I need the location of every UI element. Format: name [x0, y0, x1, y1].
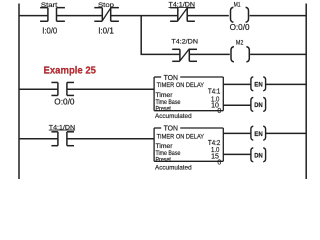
timer box T4:2 TON: [154, 128, 223, 161]
wire Start to Stop: [57, 15, 103, 17]
svg-text:Preset: Preset: [156, 157, 172, 164]
svg-text:TIMER ON DELAY: TIMER ON DELAY: [157, 82, 205, 89]
branch wire down from rung1 to rung2: [140, 16, 142, 55]
svg-text:DN: DN: [254, 102, 263, 109]
svg-text:TON: TON: [164, 73, 178, 82]
svg-text:Accumulated: Accumulated: [155, 113, 192, 120]
right power rail: [305, 4, 307, 180]
svg-text:Timer: Timer: [156, 92, 174, 99]
coil M1 (OTE): [231, 7, 249, 22]
contact O:0/0 (XIC normally open) rung3: [51, 82, 74, 95]
left power rail: [18, 4, 20, 180]
svg-text:EN: EN: [254, 81, 263, 88]
svg-text:Example 25: Example 25: [44, 64, 97, 76]
wire rung4: rail to T4:1/DN: [19, 138, 58, 140]
svg-text:O:0/0: O:0/0: [230, 22, 250, 32]
svg-text:TIMER ON DELAY: TIMER ON DELAY: [157, 134, 205, 141]
svg-text:I:0/1: I:0/1: [98, 26, 114, 36]
contact T4:1/DN (XIO normally closed) rung1: [170, 8, 195, 22]
wire timer1 to DN coil: [223, 104, 250, 106]
coil EN timer2: [251, 126, 266, 140]
wire timer1 to EN coil: [223, 83, 250, 85]
svg-text:DN: DN: [254, 152, 263, 159]
coil DN timer2: [251, 148, 266, 162]
contact Stop (XIO normally closed): [94, 8, 119, 22]
wire rung1: rail to Start: [19, 15, 48, 17]
svg-text:EN: EN: [254, 131, 263, 138]
wire T4:1/DN to timer box T4:2: [67, 138, 154, 140]
svg-text:T4:1: T4:1: [208, 89, 221, 96]
svg-text:TON: TON: [164, 124, 178, 133]
wire timer2 to EN coil: [223, 132, 250, 134]
svg-text:M2: M2: [236, 40, 244, 47]
svg-text:M1: M1: [234, 2, 241, 9]
svg-text:I:0/0: I:0/0: [42, 26, 57, 36]
timer box T4:1 TON: [154, 77, 223, 111]
svg-text:Start: Start: [41, 2, 58, 9]
svg-text:0: 0: [217, 108, 221, 115]
svg-text:Accumulated: Accumulated: [155, 165, 192, 172]
wire O:0/0 to timer box T4:1: [67, 88, 154, 90]
coil DN timer1: [251, 97, 266, 111]
wire timer2 to DN coil: [223, 153, 250, 155]
contact T4:1/DN (XIC normally open) rung4: [51, 132, 74, 146]
svg-text:T4:2/DN: T4:2/DN: [171, 38, 198, 45]
wire rung3: rail to O:0/0: [19, 88, 58, 90]
wire EN timer2 to right rail: [266, 132, 306, 134]
svg-text:Timer: Timer: [156, 143, 174, 150]
coil M2 (OTE): [231, 47, 249, 62]
wire EN timer1 to right rail: [266, 83, 306, 85]
coil EN timer1: [251, 77, 266, 91]
svg-text:Preset: Preset: [156, 105, 172, 112]
svg-text:0: 0: [217, 159, 221, 166]
contact Start (XIC normally open): [40, 8, 65, 22]
wire T4:2/DN to M2: [189, 53, 230, 55]
wire T4:1/DN to M1: [187, 15, 229, 17]
svg-text:T4:2: T4:2: [208, 140, 221, 147]
wire M2 to right rail: [250, 53, 306, 55]
wire M1 to right rail: [250, 15, 307, 17]
contact T4:2/DN (XIO normally closed) rung2: [172, 49, 197, 62]
svg-text:O:0/0: O:0/0: [54, 96, 75, 106]
wire Stop to T4:1/DN: [111, 15, 178, 17]
wire rung2: branch to T4:2/DN: [141, 53, 180, 55]
svg-text:Stop: Stop: [98, 2, 114, 9]
